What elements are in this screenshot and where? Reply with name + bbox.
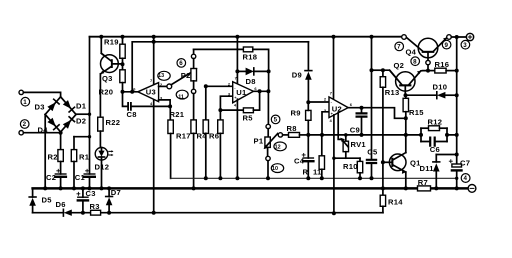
op-amp U2 — [329, 35, 360, 216]
resistor R17 — [191, 120, 196, 190]
svg-text:D9: D9 — [292, 70, 302, 79]
wire U2 output — [348, 106, 408, 121]
svg-text:P1: P1 — [254, 136, 264, 145]
svg-text:13: 13 — [158, 73, 164, 79]
svg-text:R7: R7 — [418, 178, 428, 187]
capacitor C5 — [367, 160, 376, 181]
svg-text:R10: R10 — [343, 162, 358, 171]
svg-text:R16: R16 — [435, 60, 450, 69]
svg-text:10: 10 — [272, 166, 278, 172]
wire Q1 base column — [381, 160, 385, 190]
svg-text:R6: R6 — [209, 131, 219, 140]
svg-text:D2: D2 — [76, 117, 86, 126]
svg-text:R2: R2 — [48, 153, 58, 162]
resistor R2 — [58, 132, 63, 174]
wire U1 output column — [267, 71, 269, 124]
wire R1 top branch — [74, 136, 90, 138]
terminal 12 — [274, 133, 289, 151]
diode D11 — [433, 155, 457, 191]
wire midline net — [306, 133, 423, 137]
wire U1 pin3 — [218, 96, 243, 112]
terminal 8 ring — [411, 57, 420, 66]
diode D2 — [61, 114, 76, 131]
svg-text:3: 3 — [463, 42, 467, 49]
potentiometer P1 wiper — [264, 134, 279, 150]
terminal 11 — [176, 90, 188, 99]
resistor R22 — [98, 117, 103, 147]
capacitor C3 — [77, 186, 88, 214]
svg-text:D5: D5 — [42, 195, 53, 204]
svg-text:C9: C9 — [350, 125, 360, 134]
svg-text:11: 11 — [178, 94, 184, 100]
svg-text:D8: D8 — [246, 77, 256, 86]
capacitor C9 — [357, 108, 367, 135]
wire U3 supply line — [130, 40, 308, 94]
svg-text:C4: C4 — [294, 156, 305, 165]
svg-text:6: 6 — [179, 60, 183, 67]
capacitor C8 — [123, 92, 173, 110]
svg-text:R19: R19 — [104, 37, 119, 46]
svg-text:C3: C3 — [86, 189, 96, 198]
terminal 13 — [158, 71, 172, 89]
svg-text:D6: D6 — [56, 200, 66, 209]
node raw rail junctions — [88, 113, 91, 139]
terminal 7 ring — [395, 35, 406, 51]
wire R12 C6 frame — [421, 128, 457, 141]
diode D3 — [45, 97, 60, 115]
diode D9 — [305, 42, 312, 103]
svg-text:R17: R17 — [176, 131, 191, 140]
diode D10 — [406, 92, 457, 99]
resistor R20 — [120, 70, 125, 94]
svg-text:7: 7 — [397, 44, 401, 51]
transistor Q3 — [99, 35, 122, 118]
resistor R3 — [91, 210, 101, 215]
resistor R11 — [319, 135, 324, 180]
potentiometer P1 — [265, 129, 270, 157]
svg-text:R15: R15 — [409, 108, 424, 117]
svg-text:R13: R13 — [385, 88, 400, 97]
resistor R13 — [380, 70, 385, 162]
svg-text:C1: C1 — [75, 173, 86, 182]
capacitor C6 — [421, 138, 447, 146]
capacitor C2 — [55, 169, 66, 190]
resistor R19 — [120, 35, 125, 70]
wire right rail — [455, 37, 459, 164]
svg-text:R14: R14 — [388, 197, 403, 206]
svg-text:C7: C7 — [460, 158, 470, 167]
svg-text:D7: D7 — [111, 188, 121, 197]
svg-text:R4: R4 — [197, 131, 208, 140]
resistor R18 — [194, 47, 269, 71]
terminal 1 — [19, 90, 61, 106]
wire BUS0 — [171, 177, 457, 179]
wire BUS2 — [33, 212, 383, 214]
svg-text:C5: C5 — [367, 148, 378, 157]
terminal 9 ring — [442, 35, 466, 49]
terminal 6 — [177, 59, 186, 68]
svg-text:D3: D3 — [35, 103, 45, 112]
svg-text:R18: R18 — [243, 53, 258, 62]
capacitor C7 — [449, 160, 461, 191]
resistor R12 — [421, 126, 447, 131]
diode D6 — [63, 209, 71, 216]
LED D12 — [95, 148, 113, 191]
diode D4 — [45, 114, 60, 131]
resistor R8 — [289, 133, 309, 138]
svg-text:9: 9 — [445, 42, 449, 49]
svg-text:12: 12 — [275, 144, 281, 150]
terminal 10 — [266, 156, 284, 180]
svg-text:Q3: Q3 — [102, 74, 113, 83]
svg-text:1: 1 — [23, 99, 27, 106]
resistor R16 — [428, 68, 459, 73]
op-amp U3 — [138, 83, 170, 107]
svg-text:C8: C8 — [127, 110, 137, 119]
svg-text:C2: C2 — [46, 173, 56, 182]
svg-text:R20: R20 — [99, 87, 114, 96]
resistor R9 — [306, 102, 311, 135]
svg-text:2: 2 — [23, 121, 27, 128]
capacitor C1 — [84, 169, 95, 190]
svg-text:R9: R9 — [291, 108, 301, 117]
wire bridge left vertex to BUS1 — [43, 114, 47, 190]
wire left raw rail — [89, 37, 91, 174]
diode D5 — [29, 188, 36, 212]
svg-text:R5: R5 — [243, 113, 254, 122]
diode D8 — [235, 68, 270, 76]
resistor R21 — [168, 106, 173, 178]
wire U2 pin3 — [322, 112, 329, 135]
resistor R1 — [71, 137, 76, 191]
svg-text:D11: D11 — [420, 164, 435, 173]
wire top bus — [90, 36, 402, 38]
wire U2 pin2 — [306, 100, 329, 104]
resistor R5 — [243, 91, 259, 112]
resistor R4 — [203, 86, 208, 180]
transistor Q1 — [383, 118, 408, 190]
wire U3 input — [123, 91, 138, 93]
resistor R6 — [218, 110, 223, 180]
resistor R15 — [403, 95, 408, 118]
svg-text:Q2: Q2 — [394, 61, 405, 70]
svg-text:11: 11 — [313, 168, 322, 177]
svg-text:U1: U1 — [236, 88, 247, 97]
wire long vertical rail to BUS2 — [152, 35, 156, 215]
svg-text:Q1: Q1 — [410, 158, 421, 167]
svg-text:R21: R21 — [170, 110, 185, 119]
terminal plus and 3 — [461, 33, 474, 49]
potentiometer P2 — [191, 49, 197, 120]
svg-text:D10: D10 — [433, 83, 448, 92]
op-amp U1 — [233, 35, 271, 181]
transistor Q4 — [406, 37, 447, 72]
svg-text:U2: U2 — [332, 104, 342, 113]
capacitor C4 — [302, 135, 313, 180]
svg-text:5: 5 — [274, 117, 278, 124]
potentiometer P2 wiper — [171, 68, 197, 84]
wire bridge right vertex to rail — [76, 113, 90, 115]
svg-text:RV1: RV1 — [351, 140, 367, 149]
terminal 5 — [266, 115, 280, 129]
wire U1 pin2 — [204, 84, 233, 88]
wire BUS1 — [33, 187, 469, 190]
svg-text:D1: D1 — [76, 102, 87, 111]
wire C5 rail — [370, 35, 385, 160]
svg-text:Q4: Q4 — [406, 47, 417, 56]
svg-text:R: R — [303, 168, 309, 177]
resistor R10 — [357, 158, 362, 180]
svg-text:P2: P2 — [181, 71, 191, 80]
terminal 4 and minus — [461, 174, 476, 193]
svg-text:U3: U3 — [146, 87, 156, 96]
svg-text:8: 8 — [413, 58, 417, 65]
svg-text:R8: R8 — [287, 124, 297, 133]
svg-text:R3: R3 — [90, 202, 100, 211]
svg-text:R1: R1 — [79, 153, 90, 162]
svg-text:4: 4 — [464, 175, 468, 182]
svg-text:D4: D4 — [38, 126, 49, 135]
trimmer RV1 — [340, 135, 348, 158]
diode D7 — [106, 186, 113, 214]
svg-text:D12: D12 — [95, 162, 110, 171]
resistor R14 — [380, 188, 385, 212]
svg-text:C6: C6 — [430, 145, 440, 154]
transistor Q2 — [383, 70, 427, 97]
svg-text:R12: R12 — [428, 117, 443, 126]
resistor R7 — [418, 186, 431, 191]
svg-text:R22: R22 — [106, 118, 121, 127]
diode D1 — [61, 97, 76, 115]
terminal 2 — [19, 120, 63, 135]
